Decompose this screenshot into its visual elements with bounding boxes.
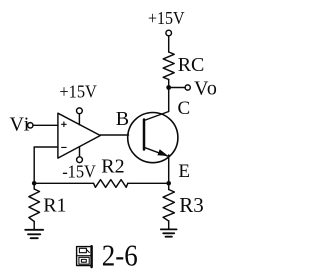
terminal +15V — [166, 30, 172, 36]
svg-text:+15V: +15V — [59, 81, 97, 101]
svg-text:R1: R1 — [43, 195, 66, 217]
svg-text:+15V: +15V — [148, 8, 185, 28]
wire — [33, 222, 35, 230]
svg-text:R2: R2 — [101, 156, 124, 178]
label Vi — [10, 113, 31, 135]
label R2 — [101, 156, 124, 178]
node E junction — [166, 181, 171, 186]
wire non-inverting input — [33, 124, 58, 126]
svg-text:C: C — [178, 98, 191, 119]
wire — [168, 36, 170, 52]
resistor RC — [163, 52, 174, 80]
terminal Vo — [185, 85, 190, 90]
wire — [169, 87, 185, 89]
svg-text:-15V: -15V — [62, 162, 96, 182]
wire — [78, 114, 80, 125]
ground (R3) — [161, 229, 177, 236]
op-amp U1 — [58, 113, 100, 158]
wire collector rail — [168, 88, 170, 112]
label R3 — [179, 193, 204, 217]
wire emitter rail — [168, 155, 170, 183]
wire — [128, 182, 169, 184]
wire base — [100, 134, 128, 136]
wire — [79, 147, 81, 157]
ground (R1) — [25, 230, 43, 238]
label R1 — [43, 195, 66, 217]
terminal +15V op-amp — [77, 108, 83, 114]
label +15V (collector supply) — [148, 8, 185, 28]
wire — [168, 183, 170, 189]
label RC — [178, 54, 205, 76]
terminal -15V — [77, 157, 83, 163]
terminal Vi — [28, 123, 33, 128]
svg-text:R3: R3 — [179, 193, 204, 217]
wire — [168, 221, 170, 229]
label B — [116, 108, 129, 130]
svg-text:Vo: Vo — [194, 78, 218, 100]
caption 圖 2-6 — [77, 238, 138, 273]
wire — [33, 183, 35, 189]
label Vo — [194, 78, 218, 100]
label E — [178, 161, 190, 182]
resistor R2 — [94, 180, 128, 188]
resistor R3 — [163, 190, 174, 222]
svg-text:E: E — [178, 161, 190, 182]
label +15V (op-amp supply) — [59, 81, 97, 101]
wire inverting input feedback — [34, 147, 58, 183]
transistor Q1 — [128, 112, 178, 163]
label -15V — [62, 162, 96, 182]
wire — [168, 80, 170, 88]
label C — [178, 98, 191, 119]
svg-text:Vi: Vi — [10, 113, 31, 135]
svg-text:2-6: 2-6 — [102, 238, 138, 273]
svg-text:RC: RC — [178, 54, 205, 76]
svg-text:B: B — [116, 108, 129, 130]
resistor R1 — [29, 189, 40, 222]
node C junction — [166, 85, 171, 90]
node feedback junction — [32, 181, 37, 186]
wire — [34, 182, 93, 184]
